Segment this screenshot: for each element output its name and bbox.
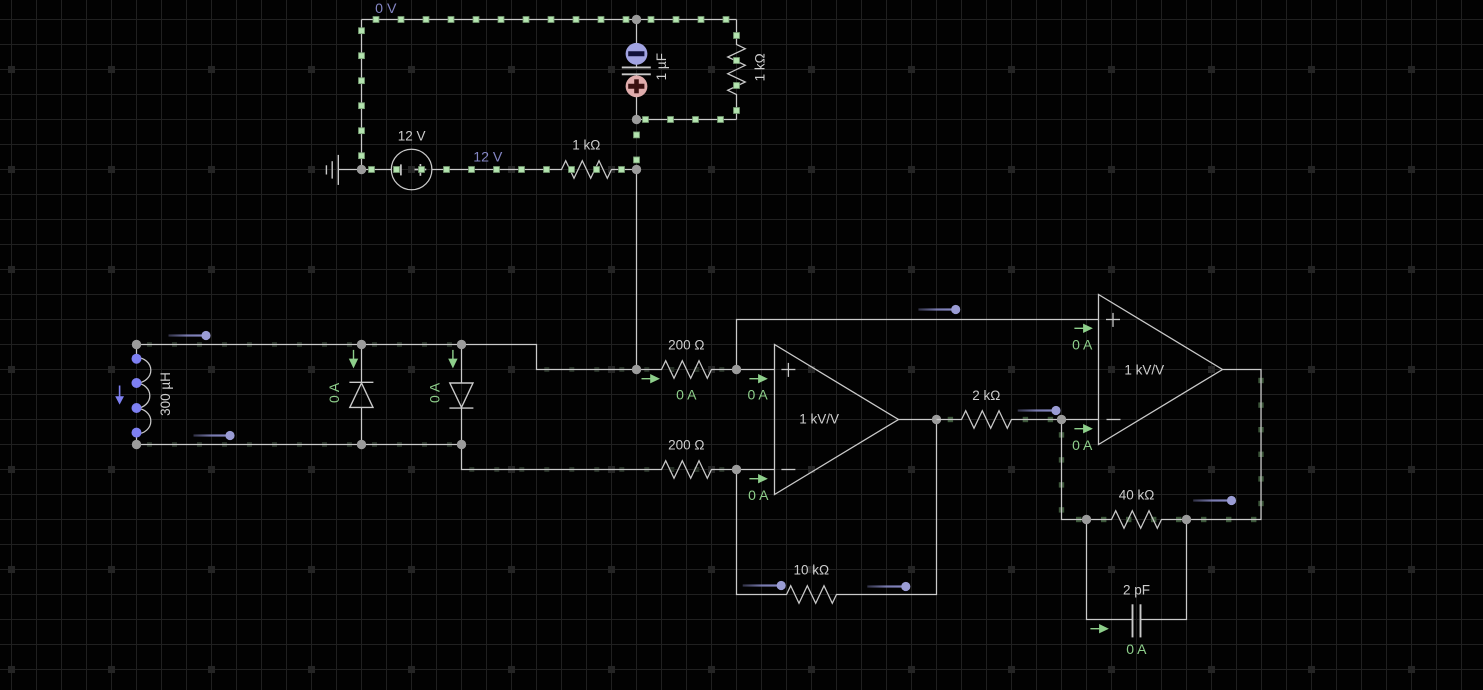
junction dot R4 right / -input xyxy=(732,465,741,474)
voltage source V1 12 V (battery) xyxy=(362,149,432,190)
junction dot D2 top xyxy=(457,340,466,349)
C2 current arrow xyxy=(1090,624,1109,633)
D1 current arrow xyxy=(349,350,358,369)
svg-text:0 A: 0 A xyxy=(747,387,768,403)
wire: opamp2 output loop xyxy=(1187,370,1262,520)
bright current dashes: top loop xyxy=(359,17,740,173)
resistor R4 200 Ω (lower) xyxy=(637,461,737,479)
svg-text:12 V: 12 V xyxy=(398,129,426,144)
D2 current arrow xyxy=(448,350,457,369)
ground symbol xyxy=(326,155,361,185)
junction dot 40k left xyxy=(1082,515,1091,524)
junction dot 2k right / opamp2 -input xyxy=(1057,415,1066,424)
wire: top rail right segment xyxy=(637,19,737,21)
svg-text:0 A: 0 A xyxy=(1126,641,1147,657)
svg-text:1 kΩ: 1 kΩ xyxy=(572,138,600,153)
resistor R5 10 kΩ xyxy=(762,586,862,604)
faint current dashes on input rails (behind wires) xyxy=(147,342,724,472)
probe P5 (10k left) xyxy=(743,581,786,590)
svg-text:0 V: 0 V xyxy=(375,1,397,17)
junction dot D2 bottom xyxy=(457,440,466,449)
probe P1 (inductor top) xyxy=(169,331,211,340)
diode D2 (pointing down) xyxy=(449,345,473,445)
wire: top rail 0V net xyxy=(362,19,637,21)
wire: opamp1 +input stub xyxy=(737,369,775,371)
junction dot battery-ground xyxy=(357,165,366,174)
svg-text:0 A: 0 A xyxy=(676,387,697,403)
svg-text:1 kV/V: 1 kV/V xyxy=(1124,362,1164,377)
op-amp U2 1 kV/V xyxy=(1099,295,1223,445)
probe P4 (2k right) xyxy=(1018,406,1061,415)
junction dot D1 top xyxy=(357,340,366,349)
resistor R3 200 Ω (upper) xyxy=(637,361,737,379)
wire: step from lower rail to lower 200Ω row xyxy=(462,445,637,470)
dim current dashes opamp2 loop (behind wires) xyxy=(948,378,1264,522)
resistor R1 1 kΩ (horizontal, near battery) xyxy=(537,161,637,179)
svg-text:0 A: 0 A xyxy=(326,382,342,403)
inductor charge dots xyxy=(132,354,142,438)
svg-text:200 Ω: 200 Ω xyxy=(668,338,704,353)
resistor R2 1 kΩ (vertical, top right) xyxy=(728,20,746,120)
svg-text:1 kΩ: 1 kΩ xyxy=(752,53,767,81)
junction dot D1 bottom xyxy=(357,440,366,449)
inductor charge arrow (blue, down) xyxy=(115,386,124,405)
opamp2 +input arrow xyxy=(1074,324,1093,333)
wire: opamp2 -input stub xyxy=(1062,419,1099,421)
wire: bottom of top loop xyxy=(637,119,737,121)
svg-text:2 pF: 2 pF xyxy=(1123,583,1150,598)
inductor L1 300 µH xyxy=(137,345,151,445)
opamp2 -input arrow xyxy=(1074,424,1093,433)
probe P6 (10k right) xyxy=(867,582,910,591)
op-amp U1 1 kV/V xyxy=(775,345,899,495)
R3 current arrow xyxy=(642,374,661,383)
svg-text:12 V: 12 V xyxy=(473,149,503,165)
probe P7 (40k right) xyxy=(1193,496,1236,505)
wire: step from upper rail to 200Ω row xyxy=(462,345,637,370)
capacitor C2 2 pF xyxy=(1087,520,1187,638)
svg-text:0 A: 0 A xyxy=(427,382,443,403)
opamp1 -input arrow xyxy=(749,474,768,483)
svg-text:200 Ω: 200 Ω xyxy=(668,438,704,453)
junction dot inductor top xyxy=(132,340,141,349)
junction dot R3 left xyxy=(632,365,641,374)
svg-text:0 A: 0 A xyxy=(1072,437,1093,453)
svg-text:10 kΩ: 10 kΩ xyxy=(793,563,829,578)
wire: +input node up and across to opamp2 xyxy=(737,320,1099,370)
opamp1 +input arrow xyxy=(749,374,768,383)
wire: left vertical from top rail to battery xyxy=(361,20,363,170)
svg-text:1 µF: 1 µF xyxy=(654,53,669,80)
wire: feedback loop down-left (10k) xyxy=(737,470,762,595)
junction dot cap top xyxy=(632,15,641,24)
svg-text:1 kV/V: 1 kV/V xyxy=(799,412,839,427)
resistor R7 40 kΩ xyxy=(1087,511,1187,529)
wire: upper input rail xyxy=(137,344,462,346)
svg-text:2 kΩ: 2 kΩ xyxy=(972,388,1000,403)
diode D1 (pointing up) xyxy=(349,345,373,445)
wire: mid vertical from R1 node down to 200Ω junction xyxy=(636,170,638,370)
junction dot opamp1 output xyxy=(932,415,941,424)
junction dot 40k right xyxy=(1182,515,1191,524)
svg-text:40 kΩ: 40 kΩ xyxy=(1119,488,1155,503)
junction dot cap bottom xyxy=(632,115,641,124)
junction dot R1 right xyxy=(632,165,641,174)
svg-text:0 A: 0 A xyxy=(748,487,769,503)
capacitor C1 1 µF (polarized, vertical) xyxy=(622,20,651,120)
junction dot inductor bottom xyxy=(132,440,141,449)
wire: lower input rail xyxy=(137,444,462,446)
resistor R6 2 kΩ xyxy=(937,411,1037,429)
wire: 10k right up to output node xyxy=(862,420,937,595)
wire: opamp1 -input stub xyxy=(737,469,775,471)
svg-text:0 A: 0 A xyxy=(1072,336,1093,352)
probe P2 (inductor bottom) xyxy=(194,431,235,440)
svg-text:300 µH: 300 µH xyxy=(158,372,173,416)
wire: opamp1 output xyxy=(899,419,937,421)
probe P3 (on long wire) xyxy=(918,305,960,314)
wire: 2k to -input junction xyxy=(1037,419,1062,421)
junction dot R3 right / +input xyxy=(732,365,741,374)
wire: -input node down to 40k row xyxy=(1062,420,1087,520)
